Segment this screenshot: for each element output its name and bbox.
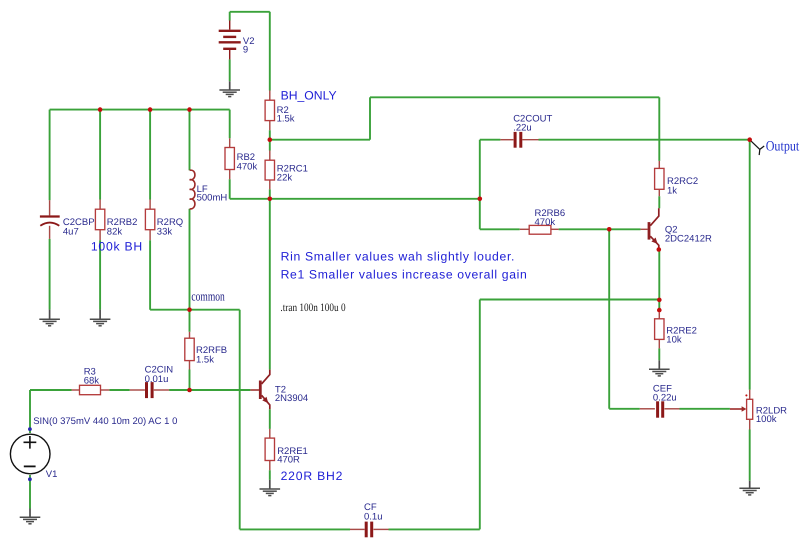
node bus-R2RB2 bbox=[98, 107, 103, 112]
ground V1 bbox=[20, 509, 41, 524]
node R2 bottom bbox=[268, 137, 273, 142]
wire V1 top column bbox=[29, 390, 31, 433]
label R2RQ value bbox=[157, 217, 183, 238]
label RB2 value bbox=[237, 152, 258, 173]
lead battery top bbox=[229, 21, 231, 30]
svg-text:470k: 470k bbox=[535, 217, 556, 228]
wire R2RFB bottom to input node bbox=[189, 370, 191, 391]
wire T2 emitter to R2RE1 bbox=[269, 409, 271, 429]
wire top rail battery to R2 column bbox=[230, 11, 270, 13]
lead R3 right bbox=[101, 389, 110, 391]
lead R2RE2 bottom bbox=[658, 339, 660, 348]
label R2RC2 value bbox=[667, 176, 698, 197]
svg-text:33k: 33k bbox=[157, 227, 173, 238]
wire V1 bottom to ground bbox=[29, 475, 31, 509]
lead CEF right bbox=[665, 408, 680, 410]
svg-text:0.01u: 0.01u bbox=[145, 374, 169, 385]
wire CF riser up to emitter row bbox=[479, 300, 481, 530]
capacitor C2COUT bbox=[515, 132, 521, 148]
node R2RFB input bbox=[187, 388, 192, 393]
lead R2RQ bottom bbox=[149, 230, 151, 241]
resistor R2RB2 bbox=[95, 209, 104, 230]
svg-text:500mH: 500mH bbox=[197, 193, 228, 204]
wire input row V1 to R3 bbox=[30, 389, 72, 391]
lead R2LDR top bbox=[749, 390, 751, 400]
svg-text:SIN(0 375mV 440 10m 20) AC 1 0: SIN(0 375mV 440 10m 20) AC 1 0 bbox=[33, 416, 177, 427]
node riser collector rail bbox=[478, 197, 483, 202]
wire output row left of C2COUT bbox=[480, 139, 501, 141]
node output bbox=[747, 137, 752, 142]
lead R2RFB bottom bbox=[189, 361, 191, 370]
lead CEF left bbox=[640, 408, 655, 410]
wire R2RC1 bottom to collector rail bbox=[269, 189, 271, 199]
potentiometer R2LDR pin dot bbox=[745, 394, 747, 396]
ground C2CBP bbox=[39, 310, 60, 326]
lead R2RB2 bottom bbox=[99, 230, 101, 241]
lead C2CBP top bbox=[49, 200, 51, 215]
wire CEF riser from base row bbox=[608, 229, 610, 408]
lead R2RFB top bbox=[189, 332, 191, 338]
capacitor C2CBP bbox=[40, 217, 60, 226]
lead R2RE1 bottom bbox=[269, 461, 271, 471]
wire collector rail down to T2 collector bbox=[269, 199, 271, 370]
svg-text:82k: 82k bbox=[107, 227, 123, 238]
wire output node down to R2LDR bbox=[749, 140, 751, 390]
lead C2CIN right bbox=[154, 389, 169, 391]
lead battery bottom bbox=[229, 50, 231, 59]
svg-text:V1: V1 bbox=[46, 469, 58, 480]
wire R2RB2 column bottom to ground bbox=[99, 240, 101, 309]
lead R2RB6 left bbox=[520, 228, 530, 230]
label Q2 type bbox=[665, 225, 712, 245]
wire R2RC2 bottom to Q2 collector bbox=[658, 196, 660, 208]
resistor R3 bbox=[80, 385, 101, 394]
svg-text:1k: 1k bbox=[667, 186, 677, 197]
svg-text:common: common bbox=[191, 288, 225, 303]
lead R2RC1 bottom bbox=[269, 180, 271, 189]
label CF value bbox=[364, 502, 383, 523]
svg-text:100k BH: 100k BH bbox=[91, 240, 143, 254]
svg-text:0.1u: 0.1u bbox=[364, 512, 383, 523]
node common bbox=[187, 307, 192, 312]
label T2 type bbox=[275, 384, 308, 404]
node emitter feedback bbox=[657, 298, 662, 303]
lead C2COUT left bbox=[500, 139, 513, 141]
wire LF bottom to common node bbox=[189, 209, 191, 310]
wire R2RB2 column top bbox=[99, 110, 101, 200]
label C2CIN value bbox=[145, 364, 174, 385]
svg-text:220R BH2: 220R BH2 bbox=[281, 469, 344, 483]
lead RB2 top bbox=[229, 138, 231, 147]
label CEF value bbox=[653, 384, 677, 404]
svg-text:0.22u: 0.22u bbox=[653, 393, 677, 404]
ground battery bbox=[219, 81, 240, 96]
wire R2RQ column bottom to common row bbox=[149, 240, 151, 310]
wire riser output row to collector rail bbox=[479, 140, 481, 230]
svg-text:470k: 470k bbox=[237, 162, 258, 173]
lead CF right bbox=[374, 528, 389, 530]
wire R2 bottom to node bbox=[269, 130, 271, 150]
label R2RE1 value bbox=[277, 446, 308, 465]
label R2RFB value bbox=[196, 345, 227, 366]
svg-text:1.5k: 1.5k bbox=[196, 354, 214, 365]
wire CF riser down bbox=[239, 310, 241, 530]
transistor T2 bbox=[250, 370, 269, 410]
lead RB2 bottom bbox=[229, 170, 231, 180]
wire battery top stub bbox=[229, 12, 231, 21]
resistor R2RC2 bbox=[655, 168, 664, 189]
lead R2 top bbox=[269, 91, 271, 101]
resistor R2RFB bbox=[185, 338, 194, 360]
wire base row left of R2RB6 bbox=[480, 228, 520, 230]
wire input row R3 to C2CIN bbox=[109, 389, 129, 391]
ground R2RE2 bbox=[649, 360, 670, 376]
wire R2 column from top rail bbox=[269, 12, 271, 91]
label C2COUT value bbox=[513, 114, 552, 134]
wire base row R2RB6 to Q2 base bbox=[559, 228, 641, 230]
wire emitter feedback row bbox=[480, 299, 660, 301]
wire C2CBP column bottom to ground bbox=[49, 239, 51, 310]
label R2LDR value bbox=[756, 405, 787, 424]
wire collector rail RB2 to riser bbox=[230, 198, 480, 200]
wire LF column top bbox=[189, 110, 191, 171]
svg-text:1.5k: 1.5k bbox=[277, 113, 295, 124]
svg-text:4u7: 4u7 bbox=[63, 226, 79, 237]
capacitor CF bbox=[366, 522, 372, 538]
svg-text:Re1 Smaller values increase ov: Re1 Smaller values increase overall gain bbox=[281, 268, 528, 282]
wire R2 node row bbox=[270, 139, 370, 141]
lead C2COUT right bbox=[522, 139, 538, 141]
wire input row C2CIN to T2 base bbox=[169, 389, 250, 391]
ground R2RE1 bbox=[260, 480, 281, 496]
svg-text:2N3904: 2N3904 bbox=[275, 393, 308, 404]
lead R2RC1 top bbox=[269, 151, 271, 161]
label R2RC1 value bbox=[277, 163, 308, 183]
lead R2RE1 top bbox=[269, 429, 271, 438]
lead R2RC2 top bbox=[658, 161, 660, 169]
wire output row C2COUT to output node bbox=[539, 139, 750, 141]
wire RB2 bottom to collector rail bbox=[229, 179, 231, 199]
junction node dots bbox=[98, 107, 752, 392]
lead R2RE2 top bbox=[658, 312, 660, 319]
node T2 collector rail bbox=[268, 197, 273, 202]
svg-text:9: 9 bbox=[243, 45, 248, 56]
svg-text:100k: 100k bbox=[756, 414, 777, 425]
wire R2RQ column top bbox=[149, 110, 151, 200]
label R2 value bbox=[277, 105, 295, 125]
source V1 bbox=[10, 427, 50, 481]
resistor R2RE2 bbox=[655, 319, 664, 340]
potentiometer R2LDR bbox=[747, 399, 753, 419]
output pin marker bbox=[750, 140, 764, 155]
wire CEF row left bbox=[609, 408, 640, 410]
node Q2 emitter bbox=[657, 247, 662, 252]
lead R2RQ top bbox=[149, 200, 151, 210]
label R2RE2 value bbox=[666, 325, 697, 345]
svg-text:2DC2412R: 2DC2412R bbox=[665, 234, 712, 245]
svg-text:68k: 68k bbox=[84, 376, 100, 387]
resistor R2 bbox=[265, 100, 274, 120]
lead R3 left bbox=[72, 389, 80, 391]
resistor R2RB6 bbox=[529, 225, 551, 234]
lead R2RB6 right bbox=[551, 228, 559, 230]
label R3 value bbox=[84, 366, 100, 386]
label R2RB2 value bbox=[107, 217, 138, 238]
svg-text:BH_ONLY: BH_ONLY bbox=[281, 89, 337, 103]
lead R2RB2 top bbox=[99, 200, 101, 210]
wire top supply rail bbox=[370, 96, 659, 98]
svg-text:10k: 10k bbox=[666, 335, 682, 346]
wire R2RC2 column top bbox=[658, 97, 660, 161]
wire RB2 column top bbox=[229, 110, 231, 139]
lead C2CIN left bbox=[130, 389, 145, 391]
label C2CBP value bbox=[63, 217, 95, 238]
capacitor CEF bbox=[658, 401, 663, 417]
svg-text:Output: Output bbox=[766, 138, 800, 154]
battery V2 bbox=[219, 31, 241, 49]
resistor R2RC1 bbox=[265, 160, 274, 180]
node bus-R2RQ bbox=[148, 107, 153, 112]
svg-text:.tran 100n 100u 0: .tran 100n 100u 0 bbox=[280, 302, 345, 314]
label LF value bbox=[197, 184, 228, 204]
resistor R2RE1 bbox=[265, 438, 274, 460]
lead R2 bottom bbox=[269, 121, 271, 131]
ground R2RB2 bbox=[90, 310, 111, 326]
lead R2RC2 bottom bbox=[658, 189, 660, 196]
lead CF left bbox=[350, 528, 365, 530]
svg-text:.22u: .22u bbox=[513, 122, 532, 133]
wire Q2 emitter column bbox=[658, 250, 660, 311]
label R2RB6 value bbox=[535, 208, 566, 228]
lead R2LDR bottom bbox=[749, 419, 751, 429]
wire common node to R2RFB top bbox=[189, 310, 191, 332]
wire C2CBP column top bbox=[49, 110, 51, 201]
wire battery negative to ground bbox=[229, 59, 231, 81]
wire node riser to top rail bbox=[369, 97, 371, 139]
node bus-LF bbox=[187, 107, 192, 112]
lead Q2 base bbox=[641, 228, 648, 230]
wire CF row left bbox=[240, 528, 350, 530]
lead C2CBP bottom bbox=[49, 226, 51, 239]
svg-text:Rin Smaller values wah slightl: Rin Smaller values wah slightly louder. bbox=[281, 250, 515, 264]
label V2 value bbox=[243, 36, 255, 56]
wire CF row right bbox=[389, 528, 480, 530]
potentiometer R2LDR wiper arrow bbox=[730, 408, 742, 410]
inductor LF bbox=[190, 170, 195, 209]
svg-text:22k: 22k bbox=[277, 172, 293, 183]
node R2RE2 top bbox=[657, 308, 662, 313]
resistor R2RQ bbox=[145, 209, 154, 230]
wire CEF row right to R2LDR wiper bbox=[680, 408, 730, 410]
wire R2LDR bottom to ground bbox=[749, 430, 751, 481]
wire R2RE1 bottom to ground bbox=[269, 470, 271, 480]
capacitor C2CIN bbox=[147, 382, 153, 398]
resistor RB2 bbox=[225, 148, 234, 170]
transistor Q2 bbox=[649, 208, 659, 249]
wire left bias bus bbox=[50, 109, 230, 111]
node Q2 base bbox=[607, 227, 612, 232]
wire R2RE2 bottom to ground bbox=[658, 348, 660, 360]
wire common row to CF riser bbox=[150, 309, 240, 311]
ground R2LDR bbox=[739, 481, 760, 495]
svg-text:470R: 470R bbox=[277, 454, 300, 465]
